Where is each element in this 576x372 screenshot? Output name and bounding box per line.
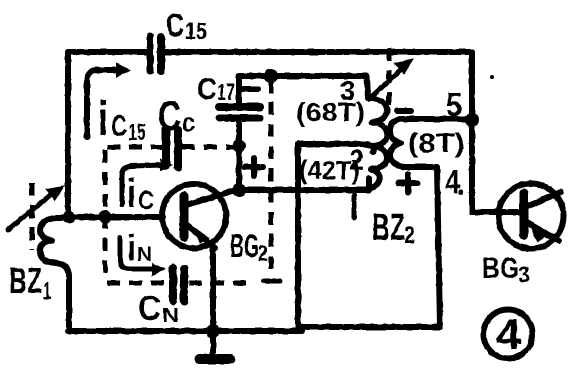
svg-text:C: C	[138, 289, 161, 328]
svg-text:1: 1	[43, 278, 51, 305]
svg-text:BZ: BZ	[9, 260, 42, 301]
svg-text:3: 3	[518, 262, 530, 287]
svg-text:BG: BG	[482, 252, 519, 285]
svg-text:15: 15	[185, 18, 207, 45]
svg-text:C: C	[166, 7, 184, 43]
svg-text:N: N	[162, 305, 179, 327]
svg-text:i: i	[127, 227, 136, 268]
svg-text:17: 17	[217, 79, 235, 106]
svg-text:2: 2	[404, 222, 415, 249]
svg-text:i: i	[127, 172, 136, 216]
svg-text:(68T): (68T)	[296, 97, 365, 127]
svg-text:BG: BG	[230, 228, 259, 264]
svg-text:C: C	[197, 73, 217, 106]
svg-text:(42T): (42T)	[299, 155, 360, 185]
svg-text:2: 2	[258, 241, 268, 266]
svg-text:5: 5	[446, 86, 462, 123]
svg-text:N: N	[137, 244, 152, 266]
svg-text:4: 4	[445, 163, 461, 200]
svg-text:C: C	[138, 185, 154, 215]
svg-text:4: 4	[496, 311, 521, 359]
svg-text:C: C	[158, 92, 181, 139]
svg-text:i: i	[98, 93, 108, 146]
svg-text:C: C	[111, 110, 127, 143]
svg-text:(8T): (8T)	[408, 128, 465, 158]
svg-text:BZ: BZ	[372, 207, 405, 249]
svg-text:c: c	[182, 107, 195, 137]
svg-text:15: 15	[128, 119, 146, 145]
